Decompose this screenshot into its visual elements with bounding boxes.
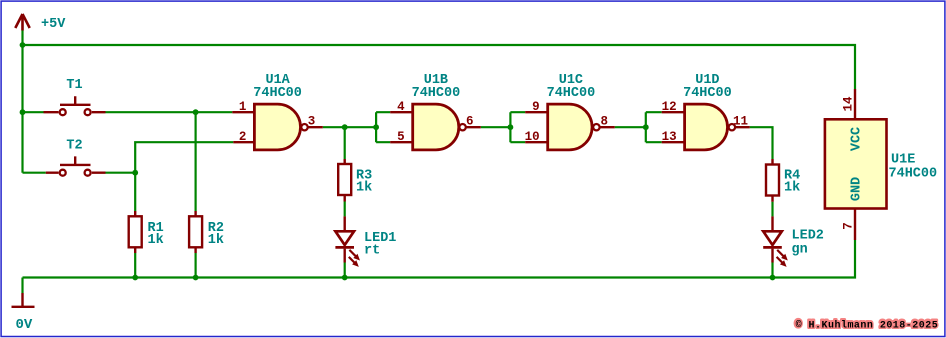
svg-text:12: 12 [662, 100, 677, 114]
svg-text:GND: GND [850, 177, 865, 201]
junction top rail left [20, 42, 26, 48]
svg-text:74HC00: 74HC00 [889, 167, 938, 182]
svg-text:11: 11 [733, 115, 748, 129]
resistor R2 [189, 211, 202, 253]
svg-text:© H.Kuhlmann 2018-2025: © H.Kuhlmann 2018-2025 [796, 319, 939, 331]
wire node to R3 [344, 127, 346, 159]
svg-text:1k: 1k [208, 233, 224, 248]
svg-text:13: 13 [662, 130, 677, 144]
junction U1B input fan [373, 124, 379, 130]
power unit U1E [825, 89, 887, 240]
wire node T1 down to R2 [195, 112, 197, 211]
svg-text:5: 5 [397, 130, 405, 144]
svg-text:9: 9 [532, 100, 540, 114]
svg-text:8: 8 [601, 115, 609, 129]
wire LED2 cathode to 0V rail [771, 263, 773, 278]
wire R2 bottom to 0V rail [195, 253, 197, 278]
wire T2 node up to U1A pin 2 [135, 142, 233, 173]
wire T1 output to U1A pin 1 [106, 111, 233, 113]
svg-text:74HC00: 74HC00 [253, 86, 302, 101]
svg-text:6: 6 [466, 115, 474, 129]
wire U1C output to U1D [615, 126, 646, 128]
svg-text:VCC: VCC [850, 127, 865, 151]
junction T2 row / R1 [132, 170, 138, 176]
wire R4 to LED2 [771, 202, 773, 217]
svg-text:74HC00: 74HC00 [547, 86, 596, 101]
junction T1 row / R2 [193, 109, 199, 115]
junction rail LED1 [342, 275, 348, 281]
svg-text:T2: T2 [66, 139, 82, 154]
LED1 [335, 216, 360, 267]
wire R1 bottom to 0V rail [134, 253, 136, 278]
power symbol +5V arrow [15, 14, 29, 31]
resistor R4 [766, 159, 779, 202]
wire U1C input fan [510, 112, 525, 142]
junction U1C input fan [508, 124, 514, 130]
svg-text:1k: 1k [356, 181, 372, 196]
wire U1B input fan [376, 112, 390, 142]
svg-text:1: 1 [239, 100, 247, 114]
wire T2 output [106, 172, 136, 174]
junction rail R1 [132, 275, 138, 281]
wire T2 node down to R1 [134, 173, 136, 211]
wire U1D input fan [646, 112, 662, 142]
wire T1 left stub [23, 111, 44, 113]
wire ground drop [21, 278, 23, 294]
LED2 [763, 216, 788, 267]
svg-text:10: 10 [525, 130, 540, 144]
switch T2 [46, 156, 106, 175]
wire top +5V rail to U1E pin 14 [23, 45, 856, 89]
switch T1 [44, 96, 106, 115]
resistor R1 [129, 211, 142, 253]
nand gate U1A [232, 104, 322, 150]
svg-text:LED2: LED2 [792, 229, 824, 244]
svg-text:4: 4 [397, 100, 405, 114]
svg-text:74HC00: 74HC00 [683, 86, 732, 101]
svg-text:U1E: U1E [891, 153, 915, 168]
junction U1A out / R3 [342, 124, 348, 130]
wire U1B output to U1C [481, 126, 511, 128]
svg-text:74HC00: 74HC00 [412, 86, 461, 101]
svg-text:1k: 1k [148, 233, 164, 248]
nand gate U1D [662, 104, 750, 150]
wire R3 to LED1 [344, 202, 346, 217]
svg-text:1k: 1k [784, 181, 800, 196]
junction T1 row left [20, 109, 26, 115]
svg-text:rt: rt [364, 244, 380, 259]
svg-text:0V: 0V [16, 317, 33, 333]
nand gate U1B [390, 104, 481, 150]
junction U1D input fan [643, 124, 649, 130]
svg-text:3: 3 [308, 115, 316, 129]
svg-text:T1: T1 [66, 78, 82, 93]
junction rail LED2 [770, 275, 776, 281]
svg-text:gn: gn [792, 243, 808, 258]
nand gate U1C [525, 104, 615, 150]
wire U1A output node [323, 126, 376, 128]
resistor R3 [338, 159, 351, 202]
svg-text:14: 14 [842, 96, 856, 112]
ground symbol 0V [12, 293, 35, 307]
wire T2 left stub [23, 172, 46, 174]
junction rail R2 [193, 275, 199, 281]
wire +5V vertical left rail [21, 31, 23, 173]
wire U1D output to R4 [750, 127, 773, 159]
svg-text:+5V: +5V [41, 17, 66, 32]
svg-text:2: 2 [239, 130, 247, 144]
svg-text:7: 7 [842, 222, 856, 230]
wire LED1 cathode to 0V rail [344, 263, 346, 278]
wire bottom 0V rail to U1E pin 7 [23, 240, 856, 278]
